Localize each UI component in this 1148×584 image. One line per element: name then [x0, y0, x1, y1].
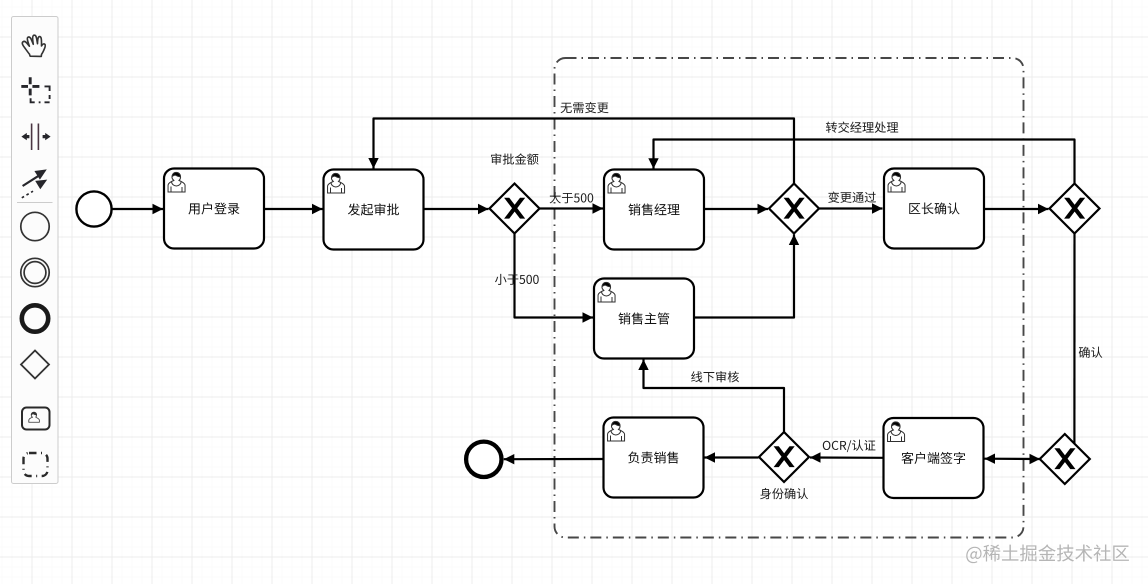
label 审批金额	[491, 153, 538, 164]
hand tool icon	[22, 35, 45, 56]
wire 区长确认 to gateway3	[985, 204, 1049, 214]
wire gateway2 to 发起审批 (无需变更)	[368, 119, 794, 184]
space tool icon	[32, 124, 39, 151]
subprocess dashed boundary	[555, 58, 1024, 538]
wire gateway4 and 客户端签字 (both arrows)	[985, 454, 1041, 465]
label 小于500	[495, 274, 539, 285]
label 大于500	[550, 192, 594, 203]
wire 客户端签字 to gateway5 (OCR/认证)	[810, 452, 883, 462]
label 变更通过	[828, 192, 876, 203]
palette separator	[17, 202, 53, 204]
end event palette icon	[22, 305, 48, 331]
label 线下审核	[691, 371, 739, 382]
task 用户登录 (task1)	[164, 169, 264, 249]
wire 发起审批 to gateway1	[425, 204, 489, 214]
task 销售经理 (task3)	[604, 170, 704, 250]
label OCR/认证	[823, 440, 876, 452]
palette panel	[12, 17, 59, 484]
subprocess palette icon	[24, 453, 48, 476]
wire gateway3 to 销售经理 (转交经理处理)	[648, 140, 1074, 184]
wire 用户登录 to 发起审批	[265, 204, 323, 214]
task 负责销售 (task6)	[604, 418, 704, 498]
wire 销售经理 to gateway2	[705, 204, 769, 214]
task 区长确认 (task4)	[884, 169, 984, 249]
label 确认	[1079, 347, 1103, 358]
label 身份确认	[760, 488, 808, 499]
watermark 稀土掘金	[966, 544, 1129, 563]
wire gateway5 to 销售主管 (线下审核)	[638, 360, 784, 432]
label 无需变更	[561, 102, 609, 113]
wire gateway2 to 区长确认 (变更通过)	[820, 203, 883, 213]
wire gateway5 to 负责销售	[705, 452, 759, 462]
gateway gw1 (exclusive X)	[490, 184, 540, 234]
wire gateway1 to 销售经理 (大于500)	[540, 203, 603, 213]
start event	[76, 191, 111, 226]
global connect tool icon	[22, 169, 47, 197]
user task palette icon	[22, 408, 50, 430]
task 客户端签字 (task7)	[884, 418, 984, 498]
gateway gw2 (exclusive X)	[769, 184, 819, 234]
task 发起审批 (task2)	[324, 170, 424, 250]
gateway gw4 (exclusive X)	[1040, 434, 1090, 484]
wire gateway3 to gateway4 (确认)	[1073, 234, 1075, 445]
gateway palette icon	[21, 351, 49, 379]
wire 销售主管 to gateway2	[695, 235, 800, 318]
task 销售主管 (task5)	[594, 279, 694, 359]
label 转交经理处理	[826, 122, 898, 133]
gateway gw3 (exclusive X)	[1050, 184, 1100, 234]
lasso tool icon	[21, 77, 49, 102]
wire 负责销售 to end	[504, 454, 603, 464]
wire gateway1 to 销售主管 (小于500)	[515, 234, 594, 323]
wire start to 用户登录	[113, 204, 164, 214]
gateway gw5 (exclusive X)	[759, 432, 809, 482]
start event palette icon	[21, 212, 49, 240]
end event	[466, 442, 501, 477]
intermediate event palette icon	[21, 258, 49, 286]
